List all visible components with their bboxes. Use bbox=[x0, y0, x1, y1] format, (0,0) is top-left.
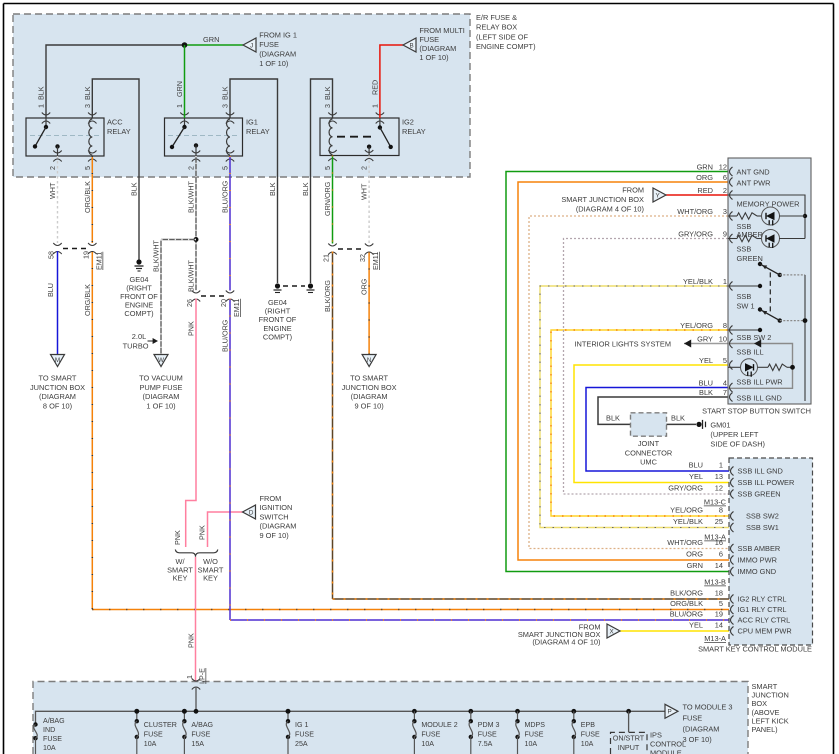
svg-text:12: 12 bbox=[715, 484, 723, 493]
svg-text:GRY/ORG: GRY/ORG bbox=[668, 484, 703, 493]
wire GRN ANT GND / IMMO GND bbox=[506, 172, 729, 572]
svg-text:CLUSTER: CLUSTER bbox=[144, 721, 177, 729]
svg-text:INPUT: INPUT bbox=[618, 743, 640, 752]
wire RED memory power bbox=[666, 194, 728, 196]
node PNK/bus junctions bbox=[134, 709, 139, 714]
svg-text:15A: 15A bbox=[191, 740, 204, 748]
svg-text:FUSE: FUSE bbox=[478, 730, 497, 738]
svg-text:JOINT: JOINT bbox=[638, 439, 660, 448]
svg-text:3: 3 bbox=[323, 104, 332, 108]
svg-text:FUSE: FUSE bbox=[191, 730, 210, 738]
connector I/P-E pin 1 bbox=[192, 679, 200, 682]
svg-text:2: 2 bbox=[723, 186, 727, 195]
svg-text:CONTROL: CONTROL bbox=[650, 740, 686, 749]
svg-text:E/R FUSE &: E/R FUSE & bbox=[476, 13, 517, 22]
svg-text:EM11: EM11 bbox=[95, 252, 104, 270]
svg-text:BLU/ORG: BLU/ORG bbox=[670, 610, 704, 619]
svg-text:GRN: GRN bbox=[697, 163, 713, 172]
svg-text:RELAY BOX: RELAY BOX bbox=[476, 23, 517, 32]
wire ORG/BLK long down then right to module IG1 RLY CTRL bbox=[91, 251, 93, 610]
svg-text:2: 2 bbox=[48, 166, 57, 170]
svg-text:IPS: IPS bbox=[650, 731, 662, 740]
svg-text:(DIAGRAM: (DIAGRAM bbox=[143, 392, 180, 401]
svg-text:TO VACUUM: TO VACUUM bbox=[139, 374, 183, 383]
arrow W to vacuum pump fuse bbox=[154, 355, 168, 367]
svg-text:1 OF 10): 1 OF 10) bbox=[419, 53, 448, 62]
svg-text:10A: 10A bbox=[581, 740, 594, 748]
svg-text:YEL: YEL bbox=[699, 356, 713, 365]
ON/STRT input box bbox=[611, 732, 648, 754]
fuse PDM 3 bbox=[468, 709, 473, 714]
svg-text:SW 1: SW 1 bbox=[737, 302, 755, 311]
svg-text:7: 7 bbox=[723, 388, 727, 397]
wire to ON/STRT input bbox=[626, 709, 631, 714]
arrow Y from smart junction box bbox=[653, 188, 666, 202]
wire GRN down to IG1 pin1 bbox=[184, 45, 186, 118]
svg-text:PUMP FUSE: PUMP FUSE bbox=[140, 383, 183, 392]
svg-text:2: 2 bbox=[187, 166, 196, 170]
arrow M to smart junction box bbox=[51, 355, 65, 367]
svg-text:D: D bbox=[249, 509, 254, 516]
resistor + LED ssb green bbox=[728, 238, 737, 240]
svg-text:W: W bbox=[158, 357, 164, 364]
svg-text:BLK: BLK bbox=[323, 86, 332, 100]
svg-text:(DIAGRAM: (DIAGRAM bbox=[39, 392, 76, 401]
wire BLU/ORG long down then right to module ACC RLY CTRL bbox=[229, 299, 231, 621]
svg-text:A/BAG: A/BAG bbox=[191, 721, 213, 729]
svg-text:WHT/ORG: WHT/ORG bbox=[667, 538, 703, 547]
ground GE04 (left) bbox=[136, 259, 141, 264]
svg-text:START STOP BUTTON SWITCH: START STOP BUTTON SWITCH bbox=[702, 407, 811, 416]
svg-text:9 OF 10): 9 OF 10) bbox=[355, 401, 384, 410]
svg-text:5: 5 bbox=[83, 166, 92, 170]
svg-text:JUNCTION BOX: JUNCTION BOX bbox=[30, 383, 85, 392]
svg-text:BLU/ORG: BLU/ORG bbox=[221, 180, 230, 213]
svg-text:10A: 10A bbox=[525, 740, 538, 748]
svg-text:MDPS: MDPS bbox=[525, 721, 546, 729]
svg-text:COMPT): COMPT) bbox=[124, 309, 153, 318]
svg-text:1: 1 bbox=[37, 104, 46, 108]
wire BLK/ORG down then right to module IG2 RLY CTRL bbox=[332, 252, 334, 600]
svg-text:FUSE: FUSE bbox=[421, 730, 440, 738]
svg-text:6: 6 bbox=[719, 550, 723, 559]
svg-text:CPU MEM PWR: CPU MEM PWR bbox=[738, 627, 792, 636]
svg-text:SMART KEY CONTROL MODULE: SMART KEY CONTROL MODULE bbox=[698, 645, 812, 654]
svg-text:10A: 10A bbox=[43, 744, 56, 752]
svg-text:SSB ILL POWER: SSB ILL POWER bbox=[738, 478, 795, 487]
svg-text:ORG: ORG bbox=[696, 173, 713, 182]
svg-text:IG1 RLY CTRL: IG1 RLY CTRL bbox=[738, 605, 787, 614]
wire YEL/BLK SSB SW1 bbox=[540, 286, 729, 528]
svg-text:IMMO PWR: IMMO PWR bbox=[738, 556, 777, 565]
fuse EPB bbox=[571, 709, 576, 714]
svg-text:58: 58 bbox=[47, 251, 56, 259]
svg-text:SSB GREEN: SSB GREEN bbox=[738, 490, 781, 499]
svg-text:25A: 25A bbox=[295, 740, 308, 748]
resistor + LED ssb amber bbox=[728, 215, 737, 217]
switch SSB SW2 bbox=[728, 329, 760, 331]
svg-text:GRN/ORG: GRN/ORG bbox=[323, 181, 332, 216]
wire BLK UMC to GM01 bbox=[667, 423, 697, 425]
node BLK/WHT branch junction bbox=[194, 237, 199, 242]
svg-text:YEL/ORG: YEL/ORG bbox=[680, 321, 713, 330]
svg-text:13: 13 bbox=[715, 472, 723, 481]
svg-text:4: 4 bbox=[723, 379, 727, 388]
svg-text:BLK: BLK bbox=[671, 414, 685, 423]
page frame bbox=[4, 3, 834, 5]
svg-text:GRY/ORG: GRY/ORG bbox=[678, 230, 713, 239]
svg-text:FUSE: FUSE bbox=[43, 735, 62, 743]
svg-text:TO SMART: TO SMART bbox=[350, 374, 388, 383]
svg-text:26: 26 bbox=[185, 299, 194, 307]
svg-text:PNK: PNK bbox=[187, 633, 196, 648]
svg-text:B: B bbox=[409, 42, 413, 49]
svg-text:SSB ILL GND: SSB ILL GND bbox=[737, 394, 782, 403]
svg-text:ACC: ACC bbox=[107, 118, 123, 127]
svg-text:BLK: BLK bbox=[221, 86, 230, 100]
svg-text:P: P bbox=[667, 709, 671, 716]
svg-text:25: 25 bbox=[715, 517, 723, 526]
svg-text:YEL: YEL bbox=[689, 472, 703, 481]
SSB pins bbox=[730, 167, 733, 176]
svg-text:(DIAGRAM: (DIAGRAM bbox=[259, 50, 296, 59]
wire BLK SSB ILL GND to joint connector bbox=[598, 397, 728, 424]
wire WHT ACC pin2 down bbox=[57, 156, 59, 243]
svg-text:(LEFT SIDE OF: (LEFT SIDE OF bbox=[476, 32, 529, 41]
svg-text:14: 14 bbox=[715, 561, 723, 570]
E/R fuse & relay box bbox=[13, 14, 470, 177]
wire YEL CPU MEM PWR bbox=[620, 630, 729, 632]
svg-text:10A: 10A bbox=[421, 740, 434, 748]
svg-text:BLU: BLU bbox=[699, 379, 713, 388]
svg-text:EM11: EM11 bbox=[232, 299, 241, 317]
mechanical link dashed bbox=[769, 272, 771, 312]
svg-text:ORG/BLK: ORG/BLK bbox=[670, 599, 703, 608]
ACC relay U1 bbox=[26, 118, 104, 156]
svg-text:ENGINE COMPT): ENGINE COMPT) bbox=[476, 42, 536, 51]
svg-text:ORG: ORG bbox=[686, 550, 703, 559]
wire WHT/ORG SSB AMBER bbox=[529, 216, 729, 549]
svg-text:FUSE: FUSE bbox=[144, 730, 163, 738]
fuse A/BAG bbox=[182, 709, 187, 714]
svg-text:FROM IG 1: FROM IG 1 bbox=[259, 31, 297, 40]
svg-text:IGNITION: IGNITION bbox=[260, 503, 293, 512]
connector EM11 pins 21/32 bbox=[328, 244, 336, 247]
svg-text:WHT/ORG: WHT/ORG bbox=[677, 207, 713, 216]
svg-text:AMBER: AMBER bbox=[737, 230, 763, 239]
svg-text:YEL: YEL bbox=[689, 621, 703, 630]
smart key control module box bbox=[729, 458, 813, 645]
svg-text:8: 8 bbox=[719, 506, 723, 515]
svg-text:1 OF 10): 1 OF 10) bbox=[259, 59, 288, 68]
svg-text:GRN: GRN bbox=[203, 35, 219, 44]
svg-text:SWITCH: SWITCH bbox=[260, 512, 289, 521]
svg-text:2: 2 bbox=[360, 166, 369, 170]
svg-text:KEY: KEY bbox=[173, 574, 188, 583]
svg-text:RED: RED bbox=[370, 80, 379, 95]
svg-text:10A: 10A bbox=[144, 740, 157, 748]
svg-text:8: 8 bbox=[723, 321, 727, 330]
wire YEL SSB ILL PWR bbox=[574, 365, 729, 483]
svg-text:IG1: IG1 bbox=[246, 118, 258, 127]
SJB bus bbox=[36, 711, 666, 724]
svg-text:7.5A: 7.5A bbox=[478, 740, 493, 748]
svg-text:3 OF 10): 3 OF 10) bbox=[683, 735, 712, 744]
svg-text:IG 1: IG 1 bbox=[295, 721, 308, 729]
IG1 relay U2 bbox=[165, 118, 243, 156]
fuse MDPS bbox=[515, 709, 520, 714]
svg-text:GREEN: GREEN bbox=[737, 254, 763, 263]
svg-text:IND: IND bbox=[43, 726, 55, 734]
svg-text:YEL/BLK: YEL/BLK bbox=[683, 277, 713, 286]
wire PNK down with jog bbox=[186, 299, 196, 548]
SSB ILL bracket bbox=[728, 344, 793, 389]
svg-text:CONNECTOR: CONNECTOR bbox=[625, 448, 673, 457]
svg-text:ACC RLY CTRL: ACC RLY CTRL bbox=[738, 616, 791, 625]
svg-text:(DIAGRAM 4 OF 10): (DIAGRAM 4 OF 10) bbox=[532, 638, 600, 647]
svg-text:PNK: PNK bbox=[187, 321, 196, 336]
svg-text:ANT GND: ANT GND bbox=[737, 168, 770, 177]
svg-text:RELAY: RELAY bbox=[402, 127, 426, 136]
svg-text:BLU: BLU bbox=[689, 461, 703, 470]
svg-text:5: 5 bbox=[221, 166, 230, 170]
svg-text:6: 6 bbox=[723, 173, 727, 182]
arrow D from ignition switch bbox=[243, 505, 256, 519]
wire IG2 pin3 BLK loop down to GE04 mid-right bbox=[311, 79, 333, 283]
svg-text:BLK: BLK bbox=[699, 388, 713, 397]
svg-text:1: 1 bbox=[185, 675, 194, 679]
LED + resistor SSB ILL bbox=[728, 366, 741, 368]
svg-text:5: 5 bbox=[719, 599, 723, 608]
svg-text:14: 14 bbox=[715, 621, 723, 630]
svg-text:GM01: GM01 bbox=[710, 421, 730, 430]
svg-text:FUSE: FUSE bbox=[581, 730, 600, 738]
svg-text:N: N bbox=[367, 357, 372, 364]
svg-text:9: 9 bbox=[723, 230, 727, 239]
wire YEL/ORG SSB SW2 bbox=[551, 330, 729, 516]
wire BLK/WHT branch to vacuum pump bbox=[161, 239, 196, 241]
svg-text:(DIAGRAM: (DIAGRAM bbox=[419, 44, 456, 53]
svg-text:YEL/BLK: YEL/BLK bbox=[673, 517, 703, 526]
wire ORG ANT PWR / IMMO PWR bbox=[518, 182, 729, 560]
joint connector UMC bbox=[631, 413, 667, 436]
svg-text:FUSE: FUSE bbox=[295, 730, 314, 738]
svg-text:BLU: BLU bbox=[46, 283, 55, 297]
IG2 relay U3 bbox=[320, 118, 399, 156]
svg-text:GRY: GRY bbox=[697, 335, 713, 344]
ground GM01 bbox=[696, 422, 701, 427]
wire BLU/ORG IG1 pin5 down bbox=[229, 156, 231, 291]
svg-text:19: 19 bbox=[715, 610, 723, 619]
svg-text:BLK/ORG: BLK/ORG bbox=[670, 589, 703, 598]
node: GRN junction bbox=[182, 42, 188, 48]
wire WHT IG2 pin2 down bbox=[368, 156, 370, 244]
fuse CLUSTER bbox=[134, 709, 139, 714]
svg-text:BLK: BLK bbox=[301, 182, 310, 196]
svg-text:3: 3 bbox=[723, 207, 727, 216]
smart junction box (bottom) bbox=[33, 682, 748, 754]
svg-text:SSB ILL GND: SSB ILL GND bbox=[738, 467, 783, 476]
svg-text:(DIAGRAM: (DIAGRAM bbox=[351, 392, 388, 401]
svg-text:I/P-E: I/P-E bbox=[198, 668, 207, 684]
module pins bbox=[731, 467, 734, 476]
svg-text:FROM MULTI: FROM MULTI bbox=[419, 26, 464, 35]
svg-text:3: 3 bbox=[221, 104, 230, 108]
svg-text:FUSE: FUSE bbox=[259, 40, 279, 49]
svg-text:1: 1 bbox=[719, 461, 723, 470]
svg-text:(DIAGRAM 4 OF 10): (DIAGRAM 4 OF 10) bbox=[576, 205, 644, 214]
svg-text:TURBO: TURBO bbox=[123, 341, 149, 350]
svg-text:(UPPER LEFT: (UPPER LEFT bbox=[710, 430, 759, 439]
svg-text:PDM 3: PDM 3 bbox=[478, 721, 500, 729]
svg-text:M13-C: M13-C bbox=[704, 498, 727, 507]
svg-text:ORG/BLK: ORG/BLK bbox=[83, 181, 92, 213]
wire PNK from D arrow bbox=[208, 512, 243, 547]
svg-text:SSB AMBER: SSB AMBER bbox=[738, 544, 781, 553]
svg-text:1: 1 bbox=[723, 277, 727, 286]
fuse MODULE 2 bbox=[412, 709, 417, 714]
svg-text:ORG: ORG bbox=[360, 278, 369, 295]
svg-text:ORG/BLK: ORG/BLK bbox=[83, 284, 92, 316]
svg-text:PANEL): PANEL) bbox=[752, 725, 778, 734]
svg-text:M: M bbox=[55, 357, 60, 364]
svg-text:IG2: IG2 bbox=[402, 118, 414, 127]
svg-text:M13-B: M13-B bbox=[704, 578, 726, 587]
svg-text:21: 21 bbox=[322, 254, 331, 262]
wire PNK down to SJB bbox=[195, 557, 197, 682]
svg-text:SSB SW1: SSB SW1 bbox=[746, 523, 779, 532]
svg-text:WHT: WHT bbox=[48, 182, 57, 199]
svg-text:5: 5 bbox=[323, 166, 332, 170]
svg-text:20: 20 bbox=[219, 299, 228, 307]
svg-text:M13-A: M13-A bbox=[704, 634, 726, 643]
svg-text:SSB: SSB bbox=[737, 292, 752, 301]
brace smart key options bbox=[175, 550, 218, 557]
fuse IG 1 bbox=[286, 709, 291, 714]
svg-text:MODULE: MODULE bbox=[650, 749, 682, 754]
svg-text:BLK: BLK bbox=[606, 414, 620, 423]
svg-text:MODULE 2: MODULE 2 bbox=[421, 721, 457, 729]
svg-text:10: 10 bbox=[719, 335, 727, 344]
wire: ACC pin1 BLK up/over to GRN junction bbox=[46, 45, 185, 118]
svg-text:BLK: BLK bbox=[268, 182, 277, 196]
wire GRN to J arrow bbox=[185, 44, 244, 46]
connector EM11 pins 26/20 bbox=[192, 291, 200, 294]
svg-text:UMC: UMC bbox=[640, 458, 657, 467]
svg-text:TO SMART: TO SMART bbox=[39, 374, 77, 383]
svg-text:SMART JUNCTION BOX: SMART JUNCTION BOX bbox=[561, 195, 644, 204]
switch common bus bbox=[780, 274, 805, 276]
svg-text:RELAY: RELAY bbox=[246, 127, 270, 136]
svg-text:COMPT): COMPT) bbox=[263, 332, 292, 341]
svg-text:BLK/ORG: BLK/ORG bbox=[323, 280, 332, 312]
svg-text:FROM: FROM bbox=[260, 494, 282, 503]
connector EM11 pins 58/19 bbox=[53, 243, 61, 246]
svg-text:A/BAG: A/BAG bbox=[43, 717, 65, 725]
svg-text:12: 12 bbox=[719, 163, 727, 172]
svg-text:KEY: KEY bbox=[203, 574, 218, 583]
svg-text:J: J bbox=[250, 42, 253, 49]
svg-text:2.0L: 2.0L bbox=[132, 332, 146, 341]
arrow X from smart junction box bbox=[607, 624, 620, 638]
wire RED from B arrow to IG2 pin1 bbox=[380, 45, 403, 118]
wire ACC pin3 BLK loop down to GE04 bbox=[92, 79, 139, 260]
svg-text:(DIAGRAM: (DIAGRAM bbox=[260, 522, 297, 531]
svg-text:19: 19 bbox=[81, 251, 90, 259]
svg-text:18: 18 bbox=[715, 589, 723, 598]
svg-text:BLK: BLK bbox=[37, 86, 46, 100]
arrow B from multi fuse bbox=[403, 38, 416, 52]
svg-text:32: 32 bbox=[358, 254, 367, 262]
svg-text:FROM: FROM bbox=[622, 186, 644, 195]
svg-text:IG2 RLY CTRL: IG2 RLY CTRL bbox=[738, 595, 787, 604]
svg-text:TO MODULE 3: TO MODULE 3 bbox=[683, 703, 733, 712]
wire BLK/WHT IG1 pin2 down bbox=[195, 156, 197, 291]
wire IG1 pin3 BLK loop down to GE04 mid-left bbox=[230, 79, 278, 283]
svg-text:SSB ILL PWR: SSB ILL PWR bbox=[737, 378, 783, 387]
svg-text:RED: RED bbox=[697, 186, 713, 195]
svg-text:RELAY: RELAY bbox=[107, 127, 131, 136]
svg-text:BLK/WHT: BLK/WHT bbox=[152, 239, 161, 272]
svg-text:SSB ILL: SSB ILL bbox=[737, 348, 764, 357]
svg-text:1 OF 10): 1 OF 10) bbox=[146, 401, 175, 410]
svg-text:BLK: BLK bbox=[130, 182, 139, 196]
wire PNK bus entry bbox=[195, 687, 197, 712]
svg-text:SIDE OF DASH): SIDE OF DASH) bbox=[710, 440, 765, 449]
svg-text:WHT: WHT bbox=[360, 183, 369, 200]
svg-text:FUSE: FUSE bbox=[525, 730, 544, 738]
svg-text:FUSE: FUSE bbox=[419, 35, 439, 44]
wire memory power internal bbox=[728, 195, 805, 239]
svg-text:IMMO GND: IMMO GND bbox=[738, 567, 777, 576]
svg-text:YEL/ORG: YEL/ORG bbox=[670, 506, 703, 515]
svg-text:ANT PWR: ANT PWR bbox=[737, 179, 771, 188]
relay pin connectors bbox=[42, 113, 50, 116]
svg-text:1: 1 bbox=[370, 104, 379, 108]
svg-text:FUSE: FUSE bbox=[683, 713, 703, 722]
wire GRN/ORG IG2 pin5 down bbox=[332, 156, 334, 244]
arrow N to smart junction box bbox=[362, 355, 376, 367]
svg-text:SSB SW2: SSB SW2 bbox=[746, 512, 779, 521]
wire GRY interior lights bbox=[684, 343, 728, 345]
svg-text:BLU/ORG: BLU/ORG bbox=[221, 319, 230, 352]
svg-text:SSB SW 2: SSB SW 2 bbox=[737, 333, 772, 342]
arrow P to module 3 fuse bbox=[665, 704, 678, 718]
svg-text:ON/STRT: ON/STRT bbox=[613, 734, 645, 743]
svg-text:EM11: EM11 bbox=[371, 252, 380, 270]
svg-text:9 OF 10): 9 OF 10) bbox=[260, 531, 289, 540]
fuse A/BAG IND bbox=[33, 722, 37, 726]
wire ORG down to N arrow bbox=[368, 252, 370, 355]
svg-text:M13-A: M13-A bbox=[704, 533, 726, 542]
wire BLU SSB ILL GND bbox=[586, 388, 729, 472]
arrow J from IG1 fuse bbox=[243, 38, 256, 52]
svg-text:1: 1 bbox=[175, 104, 184, 108]
svg-text:JUNCTION BOX: JUNCTION BOX bbox=[342, 383, 397, 392]
svg-text:PNK: PNK bbox=[198, 525, 207, 540]
svg-text:3: 3 bbox=[83, 104, 92, 108]
svg-text:MEMORY POWER: MEMORY POWER bbox=[737, 200, 800, 209]
switch SSB SW1 bbox=[728, 285, 760, 287]
svg-text:BLK: BLK bbox=[83, 86, 92, 100]
ground GE04 (middle pair) bbox=[275, 283, 280, 288]
svg-text:GRN: GRN bbox=[175, 81, 184, 97]
svg-text:(DIAGRAM: (DIAGRAM bbox=[683, 724, 720, 733]
svg-text:8 OF 10): 8 OF 10) bbox=[43, 401, 72, 410]
svg-text:SSB: SSB bbox=[737, 245, 752, 254]
svg-text:5: 5 bbox=[723, 356, 727, 365]
svg-text:PNK: PNK bbox=[173, 530, 182, 545]
